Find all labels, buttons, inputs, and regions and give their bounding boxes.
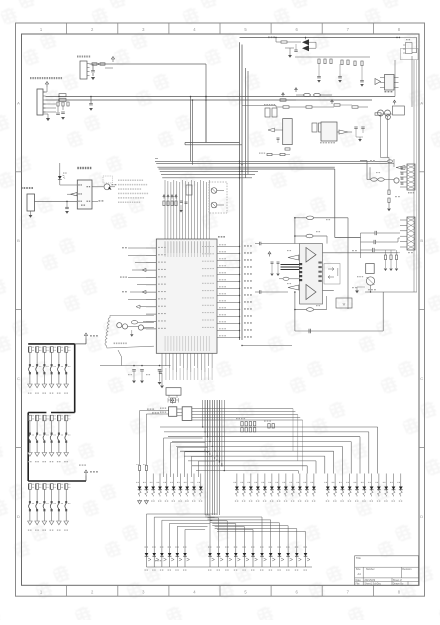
svg-text:File:: File:	[356, 582, 361, 585]
svg-text:A: A	[420, 100, 423, 105]
svg-text:V: V	[343, 302, 346, 307]
svg-text:Size: Size	[356, 568, 361, 571]
svg-text:Number: Number	[366, 568, 375, 571]
svg-text:Date:: Date:	[356, 579, 362, 582]
svg-text:A4: A4	[358, 572, 362, 576]
svg-text:Drawn By:: Drawn By:	[393, 582, 404, 585]
svg-text:B: B	[420, 238, 423, 243]
svg-text:Sheet of: Sheet of	[393, 579, 402, 582]
svg-text:Title: Title	[356, 556, 361, 560]
svg-text:B: B	[17, 238, 20, 243]
svg-text:Sheet1.SchDoc: Sheet1.SchDoc	[364, 582, 381, 585]
svg-text:C: C	[420, 376, 423, 381]
svg-text:C: C	[17, 376, 20, 381]
svg-text:Revision: Revision	[402, 568, 412, 571]
svg-text:2021/5/29: 2021/5/29	[364, 579, 375, 582]
svg-text:D: D	[17, 514, 20, 519]
svg-text:D: D	[420, 514, 423, 519]
svg-text:A: A	[17, 100, 20, 105]
